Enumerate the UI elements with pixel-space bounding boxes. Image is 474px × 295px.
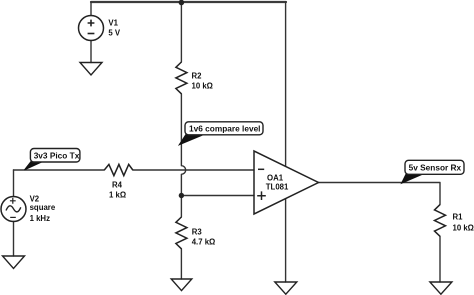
wire: V1 top stub <box>90 2 92 16</box>
plus input marker <box>257 191 266 200</box>
wire: V2 bottom to ground <box>13 222 15 257</box>
svg-text:1 kΩ: 1 kΩ <box>109 190 126 199</box>
voltage source V2 <box>1 197 26 222</box>
resistor R2 <box>176 62 187 94</box>
wire: plus input from divider node <box>181 195 254 197</box>
wire: output to R1 <box>319 183 441 205</box>
wire: R2 top lead from rail <box>180 2 182 62</box>
resistor R3 <box>176 217 187 249</box>
svg-text:5 V: 5 V <box>108 28 121 37</box>
svg-text:1v6 compare level: 1v6 compare level <box>189 123 261 133</box>
voltage source V1 <box>79 16 104 41</box>
svg-text:1 kHz: 1 kHz <box>30 214 50 223</box>
svg-text:V1: V1 <box>108 18 118 27</box>
ground (op-amp V-) <box>275 282 297 294</box>
minus input marker <box>258 168 264 170</box>
label callout: 1v6 compare level <box>179 122 263 145</box>
svg-text:OA1: OA1 <box>267 174 284 183</box>
junction dot at compare-level node <box>179 193 184 198</box>
svg-text:10 kΩ: 10 kΩ <box>453 224 474 233</box>
wire: R3 bottom lead to ground <box>180 249 182 279</box>
svg-text:R2: R2 <box>192 72 203 81</box>
wire: divider vertical with hop over Tx wire <box>181 94 185 217</box>
wire: op-amp V+ supply from rail <box>285 2 287 166</box>
wire: V2 top stub <box>13 170 15 197</box>
junction dot on top rail <box>179 0 185 5</box>
resistor R4 <box>104 164 133 175</box>
wire: op-amp V- to ground <box>285 199 287 282</box>
svg-text:10 kΩ: 10 kΩ <box>192 82 213 91</box>
label callout: 5v Sensor Rx <box>402 160 465 183</box>
label callout: 3v3 Pico Tx <box>24 149 80 170</box>
ground (R1) <box>430 282 452 294</box>
svg-text:square: square <box>30 203 56 212</box>
wire: V1 bottom to ground <box>90 41 92 63</box>
wire: R1 bottom lead to ground <box>439 236 441 282</box>
svg-text:3v3 Pico Tx: 3v3 Pico Tx <box>34 150 80 160</box>
svg-text:TL081: TL081 <box>266 183 289 192</box>
svg-text:R4: R4 <box>112 181 123 190</box>
svg-text:R1: R1 <box>453 213 464 222</box>
wire: top 5V rail <box>91 1 286 3</box>
ground (V1) <box>80 63 102 76</box>
ground (V2) <box>3 256 25 269</box>
resistor R1 <box>435 205 446 237</box>
svg-text:5v Sensor Rx: 5v Sensor Rx <box>409 162 462 172</box>
wire: Tx horizontal to op-amp minus input <box>14 169 255 171</box>
ground (R3) <box>171 279 192 291</box>
svg-text:R3: R3 <box>192 228 203 237</box>
op-amp OA1 TL081 <box>254 151 319 214</box>
svg-text:4.7 kΩ: 4.7 kΩ <box>192 238 216 247</box>
